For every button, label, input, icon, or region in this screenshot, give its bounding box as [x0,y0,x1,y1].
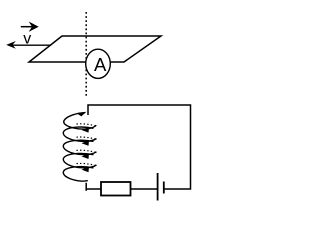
coil turn 4 [63,153,96,172]
ammeter A [86,49,111,78]
wire: battery to resistor [131,188,158,190]
wire: top of circuit [88,105,191,189]
dotted axis line [85,12,87,98]
svg-text:A: A [94,54,107,75]
battery cell: short plate [163,182,165,194]
coil turn 3 [63,140,96,159]
coil turn 2 [63,127,96,146]
battery cell: long plate [157,173,159,201]
coil (inductor) turn 1 with curl arrow [64,112,97,133]
resistor R [101,182,131,196]
conducting plate (parallelogram) [29,36,161,62]
coil turn 5 (bottom) [63,167,93,182]
left-pointing arrow on plate (direction of motion) [6,41,51,49]
velocity vector arrow (symbol over v) [21,22,39,32]
wire: resistor to coil [85,189,87,191]
